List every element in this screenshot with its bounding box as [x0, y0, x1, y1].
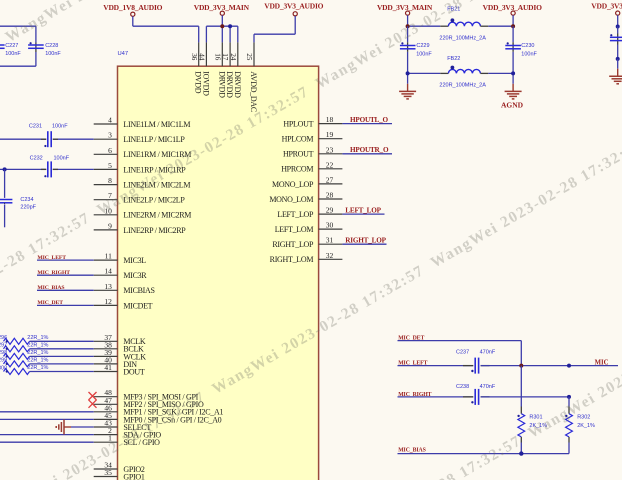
label C230 value [521, 51, 537, 57]
pin 45 MFP0 / SPI_CSn / GPI / I2C_A0 [94, 411, 222, 424]
svg-text:29: 29 [326, 206, 334, 215]
pin 13 MICBIAS [94, 282, 155, 295]
svg-text:R296: R296 [0, 335, 7, 341]
wire [408, 25, 441, 27]
junction [616, 25, 620, 29]
pin 1 SCL / GPIO [94, 434, 160, 447]
svg-text:36: 36 [190, 53, 198, 61]
net label RIGHT_LOP [345, 237, 386, 245]
svg-text:DRVDD: DRVDD [217, 71, 226, 98]
wire [617, 59, 619, 69]
wire [237, 26, 239, 42]
capacitor C230 [505, 42, 521, 52]
resistor R302 [565, 407, 572, 443]
ground [609, 69, 622, 84]
svg-text:6: 6 [108, 146, 112, 155]
wire [0, 441, 94, 443]
wire [568, 443, 570, 454]
wire [520, 443, 522, 454]
label C229 value [416, 51, 432, 57]
svg-text:MIC3R: MIC3R [123, 271, 147, 280]
svg-text:R298: R298 [0, 350, 7, 356]
svg-text:RIGHT_LOP: RIGHT_LOP [272, 240, 314, 249]
pin 30 LEFT_LOM [275, 221, 343, 234]
pin 48 MFP3 / SPI_MOSI / GPI [94, 388, 199, 401]
wire [4, 169, 6, 198]
pin 43 SELECT [94, 419, 152, 432]
svg-text:100nF: 100nF [416, 51, 432, 57]
label C229 [416, 43, 429, 49]
wire [0, 65, 36, 67]
wire net MIC_BIAS [37, 289, 94, 291]
wire [30, 348, 94, 350]
svg-text:LINE1LP / MIC1LP: LINE1LP / MIC1LP [123, 135, 185, 144]
junction [616, 57, 620, 61]
svg-text:HPRCOM: HPRCOM [281, 165, 313, 174]
svg-text:100nF: 100nF [45, 51, 61, 57]
label C231 [29, 123, 42, 129]
wire [520, 341, 522, 366]
net label LEFT_LOP [345, 207, 381, 215]
resistor R298 [0, 350, 49, 359]
svg-text:MIC3L: MIC3L [123, 256, 146, 265]
junction [519, 364, 523, 368]
pin 38 BCLK [94, 340, 144, 353]
svg-text:VDD_3V3_: VDD_3V3_ [591, 2, 622, 11]
wire [206, 25, 237, 27]
svg-text:LEFT_LOP: LEFT_LOP [345, 207, 381, 215]
svg-text:DVDD: DVDD [194, 71, 203, 93]
wire [253, 34, 255, 42]
svg-text:DRVDD: DRVDD [233, 71, 242, 98]
ground [399, 84, 416, 99]
junction [228, 24, 232, 28]
svg-text:28: 28 [326, 191, 334, 200]
pin 23 HPROUT [283, 145, 342, 158]
capacitor C227 [0, 42, 5, 48]
wire [0, 138, 94, 140]
svg-text:17: 17 [221, 53, 229, 61]
power port VDD_1V8_AUDIO [103, 3, 162, 26]
ground AGND [505, 84, 522, 99]
svg-text:GPIO1: GPIO1 [123, 472, 144, 480]
svg-text:220pF: 220pF [20, 205, 36, 211]
svg-text:100nF: 100nF [521, 51, 537, 57]
pin 8 LINE2LM / MIC2LM [94, 176, 191, 189]
net label MIC [595, 359, 609, 366]
capacitor C2xx right edge [610, 34, 622, 45]
svg-text:MICBIAS: MICBIAS [123, 286, 154, 295]
power port VDD_3V3_AUDIO 2 [483, 3, 542, 26]
pin 27 MONO_LOP [272, 175, 342, 188]
pin 18 HPLOUT [283, 115, 342, 128]
label R302 value [577, 423, 595, 429]
junction [519, 451, 523, 455]
svg-text:IOVDD: IOVDD [201, 71, 210, 96]
pin 12 MICDET [94, 297, 153, 310]
label R301 value [529, 423, 547, 429]
svg-text:44: 44 [198, 53, 206, 61]
wire [30, 340, 94, 342]
svg-text:HPROUT: HPROUT [283, 150, 314, 159]
svg-text:HPLCOM: HPLCOM [282, 135, 314, 144]
label R302 [577, 415, 590, 421]
wire [617, 27, 619, 59]
capacitor C232 [41, 161, 58, 177]
svg-text:5: 5 [108, 161, 112, 170]
svg-text:18: 18 [326, 115, 334, 124]
ferrite bead FB22 [440, 56, 488, 74]
wire net MIC_DET [398, 340, 522, 342]
wire [30, 355, 94, 357]
svg-text:MICDET: MICDET [123, 301, 152, 310]
net label MIC_DET 2 [398, 336, 424, 342]
wire [481, 396, 569, 398]
svg-text:23: 23 [326, 145, 334, 154]
wire [481, 365, 618, 367]
svg-text:VDD_3V3_MAIN: VDD_3V3_MAIN [194, 3, 250, 12]
svg-text:MONO_LOP: MONO_LOP [272, 180, 314, 189]
wire net MIC_BIAS [398, 453, 570, 455]
svg-text:12: 12 [104, 297, 112, 306]
svg-text:RIGHT_LOP: RIGHT_LOP [345, 237, 386, 245]
power port VDD_3V3 right [591, 2, 622, 27]
svg-text:24: 24 [229, 53, 237, 61]
wire [512, 26, 514, 84]
wire [408, 72, 441, 74]
pin 47 MFP2 / SPI_MISO / GPIO [94, 396, 204, 409]
net label MIC_DET [37, 300, 63, 306]
wire [0, 434, 94, 436]
svg-text:MIC: MIC [595, 359, 609, 366]
svg-text:22R_1%: 22R_1% [27, 365, 48, 371]
label C237 [456, 350, 469, 356]
wire net MIC_DET [37, 304, 94, 306]
capacitor C238 [463, 389, 490, 405]
wire net MIC_RIGHT [398, 396, 474, 398]
pin 7 LINE2LP / MIC2LP [94, 191, 186, 204]
capacitor C229 [400, 42, 416, 52]
svg-text:31: 31 [326, 236, 334, 245]
svg-text:470nF: 470nF [480, 350, 496, 356]
no-connect X pin 48 [89, 392, 97, 400]
net label MIC_BIAS 2 [398, 447, 426, 453]
wire [0, 411, 94, 413]
svg-text:MIC_RIGHT: MIC_RIGHT [37, 270, 70, 276]
svg-text:LINE2RP / MIC2RP: LINE2RP / MIC2RP [123, 226, 186, 235]
svg-text:22R_1%: 22R_1% [27, 350, 48, 356]
svg-text:MONO_LOM: MONO_LOM [269, 195, 313, 204]
svg-text:C230: C230 [521, 43, 534, 49]
wire net MIC_RIGHT [37, 274, 94, 276]
power port VDD_3V3_AUDIO [264, 2, 323, 35]
junction [567, 364, 571, 368]
net label HPOUTL_O [350, 116, 389, 124]
svg-text:9: 9 [108, 221, 112, 230]
pin 9 LINE2RP / MIC2RP [94, 221, 187, 234]
label C232 value [54, 155, 70, 161]
pin 10 LINE2RM / MIC2RM [94, 206, 192, 219]
wire [30, 371, 94, 373]
label C232 [30, 155, 43, 161]
wire [254, 33, 295, 35]
wire net MIC_LEFT [37, 259, 94, 261]
pin 4 LINE1LM / MIC1LM [94, 116, 191, 129]
wire [198, 26, 200, 42]
resistor R300 [0, 365, 49, 374]
svg-text:DRVDD: DRVDD [225, 71, 234, 98]
svg-text:22R_1%: 22R_1% [27, 335, 48, 341]
wire [35, 26, 37, 66]
svg-text:3: 3 [108, 131, 112, 140]
pin 19 HPLCOM [282, 130, 343, 143]
svg-text:AVDD_DAC: AVDD_DAC [249, 71, 258, 112]
power port VDD_3V3_MAIN [194, 3, 250, 26]
svg-text:C237: C237 [456, 350, 469, 356]
svg-text:22R_1%: 22R_1% [27, 358, 48, 364]
wire [520, 366, 522, 407]
pin 46 MFP1 / SPI_SCK / GPI / I2C_A1 [94, 403, 224, 416]
label C227 [5, 43, 18, 49]
junction [511, 71, 515, 75]
svg-text:VDD_3V3_AUDIO: VDD_3V3_AUDIO [264, 2, 323, 11]
pin 40 DIN [94, 355, 138, 368]
svg-text:11: 11 [105, 252, 112, 261]
wire net MIC_LEFT [398, 365, 474, 367]
pin 14 MIC3R [94, 267, 148, 280]
resistor R301 [517, 407, 524, 443]
pin 31 RIGHT_LOP [272, 236, 342, 249]
svg-text:4: 4 [108, 116, 112, 125]
label C234 value [20, 205, 36, 211]
svg-text:25: 25 [245, 53, 253, 61]
pin 5 LINE1RP / MIC1RP [94, 161, 187, 174]
svg-text:16: 16 [213, 53, 221, 61]
svg-text:MIC_LEFT: MIC_LEFT [37, 255, 66, 261]
ground [56, 420, 71, 435]
label R301 [529, 415, 542, 421]
svg-text:LEFT_LOP: LEFT_LOP [277, 210, 314, 219]
junction [511, 24, 515, 28]
svg-text:VDD_1V8_AUDIO: VDD_1V8_AUDIO [103, 3, 162, 12]
pin 6 LINE1RM / MIC1RM [94, 146, 192, 159]
junction [406, 24, 410, 28]
label C238 value [480, 384, 496, 390]
svg-text:C238: C238 [456, 384, 469, 390]
label C237 value [480, 350, 496, 356]
wire [30, 363, 94, 365]
label FB21 value [439, 36, 486, 42]
wire net HPOUTR_O [342, 153, 392, 155]
svg-text:LINE2RM / MIC2RM: LINE2RM / MIC2RM [123, 211, 191, 220]
pin 2 SDA / GPIO [94, 426, 162, 439]
svg-text:VDD_3V3_AUDIO: VDD_3V3_AUDIO [483, 3, 542, 12]
wire [568, 397, 570, 407]
pin 29 LEFT_LOP [277, 206, 342, 219]
pin 34 GPIO2 [94, 461, 145, 474]
svg-text:MIC_DET: MIC_DET [37, 300, 63, 306]
junction [567, 395, 571, 399]
svg-text:2K_1%: 2K_1% [577, 423, 595, 429]
junction [3, 167, 7, 171]
svg-text:14: 14 [104, 267, 112, 276]
resistor R296 [0, 335, 49, 344]
label C238 [456, 384, 469, 390]
svg-text:LEFT_LOM: LEFT_LOM [275, 225, 314, 234]
pin 22 HPRCOM [281, 160, 342, 173]
net label MIC_LEFT [37, 255, 66, 261]
no-connect X pin 47 [89, 400, 97, 408]
net label AGND [501, 100, 524, 109]
wire [488, 25, 513, 27]
capacitor C231 [41, 131, 58, 147]
capacitor C228 [28, 42, 44, 52]
label C227 value [5, 51, 21, 57]
svg-text:100nF: 100nF [5, 51, 21, 57]
label FB22 value [439, 83, 486, 89]
svg-text:WangWei 2023-02-28 17:32:57 W: WangWei 2023-02-28 17:32:57 WangWei 2023… [307, 48, 622, 480]
svg-text:U47: U47 [118, 51, 129, 57]
pin 36 DVDD [190, 42, 203, 93]
svg-text:VDD_3V3_MAIN: VDD_3V3_MAIN [377, 3, 433, 12]
net label HPOUTR_O [350, 146, 389, 154]
wire [488, 72, 513, 74]
junction [220, 24, 224, 28]
pin 25 AVDD_DAC [245, 42, 258, 111]
svg-text:RIGHT_LOM: RIGHT_LOM [270, 255, 314, 264]
svg-text:HPOUTR_O: HPOUTR_O [350, 146, 389, 154]
net label MIC_LEFT 2 [398, 361, 427, 367]
svg-text:C232: C232 [30, 155, 43, 161]
wire [0, 25, 36, 27]
svg-text:32: 32 [326, 251, 334, 260]
IC U47 audio codec body [118, 66, 319, 480]
svg-text:R297: R297 [0, 343, 7, 349]
wire [133, 25, 199, 27]
label C234 [20, 197, 33, 203]
svg-text:13: 13 [104, 282, 112, 291]
svg-text:R302: R302 [577, 415, 590, 421]
svg-text:LINE1LM / MIC1LM: LINE1LM / MIC1LM [123, 120, 190, 129]
pin 28 MONO_LOM [269, 191, 342, 204]
wire [4, 204, 6, 227]
svg-text:100nF: 100nF [54, 155, 70, 161]
resistor R297 [0, 342, 49, 351]
net label MIC_RIGHT [37, 270, 70, 276]
power port VDD_3V3_MAIN 2 [377, 3, 433, 26]
wire [0, 168, 94, 170]
resistor R299 [0, 358, 49, 367]
svg-text:MIC_BIAS: MIC_BIAS [37, 285, 64, 291]
svg-text:220R_100MHz_2A: 220R_100MHz_2A [439, 83, 486, 89]
svg-text:41: 41 [104, 363, 112, 372]
pin 39 WCLK [94, 348, 147, 361]
svg-text:220R_100MHz_2A: 220R_100MHz_2A [439, 36, 486, 42]
svg-text:30: 30 [326, 221, 334, 230]
pin 41 DOUT [94, 363, 145, 376]
ferrite bead FB21 [440, 7, 488, 27]
svg-text:C229: C229 [416, 43, 429, 49]
svg-text:470nF: 470nF [480, 384, 496, 390]
wire [221, 26, 223, 42]
capacitor C234 [0, 200, 12, 205]
svg-text:HPLOUT: HPLOUT [283, 120, 313, 129]
label C228 value [45, 51, 61, 57]
pin 24 DRVDD [229, 42, 242, 98]
net label MIC_BIAS [37, 285, 64, 291]
svg-text:C228: C228 [45, 43, 58, 49]
svg-text:HPOUTL_O: HPOUTL_O [350, 116, 389, 124]
label C230 [521, 43, 534, 49]
pin 32 RIGHT_LOM [270, 251, 343, 264]
wire net LEFT_LOP [342, 213, 384, 215]
pin 17 DRVDD [221, 42, 234, 98]
label C228 [45, 43, 58, 49]
svg-text:MIC_BIAS: MIC_BIAS [398, 447, 426, 453]
svg-text:C234: C234 [20, 197, 33, 203]
wire [229, 26, 231, 42]
junction [406, 71, 410, 75]
svg-text:35: 35 [104, 468, 112, 477]
svg-text:22: 22 [326, 160, 334, 169]
wire [71, 426, 94, 428]
svg-text:22R_1%: 22R_1% [27, 342, 48, 348]
svg-text:R299: R299 [0, 358, 7, 364]
svg-text:8: 8 [108, 176, 112, 185]
svg-text:R300: R300 [0, 365, 7, 371]
svg-text:100nF: 100nF [52, 123, 68, 129]
pin 3 LINE1LP / MIC1LP [94, 131, 186, 144]
wire [0, 418, 94, 420]
net label MIC_RIGHT 2 [398, 392, 431, 398]
pin 37 MCLK [94, 333, 146, 346]
wire [407, 26, 409, 84]
svg-text:C231: C231 [29, 123, 42, 129]
pin 44 IOVDD [198, 42, 211, 96]
wire net RIGHT_LOP [342, 243, 386, 245]
capacitor C237 [463, 358, 490, 374]
wire net HPOUTL_O [342, 123, 392, 125]
pin 35 GPIO1 [94, 468, 145, 480]
svg-text:AGND: AGND [501, 100, 524, 109]
pin 16 DRVDD [213, 42, 226, 98]
pin 11 MIC3L [94, 252, 147, 265]
svg-text:27: 27 [326, 175, 334, 184]
svg-text:DOUT: DOUT [123, 367, 144, 376]
wire [205, 26, 207, 42]
svg-text:FB22: FB22 [447, 56, 460, 62]
svg-text:19: 19 [326, 130, 334, 139]
designator U47 [118, 51, 129, 57]
label C231 value [52, 123, 68, 129]
